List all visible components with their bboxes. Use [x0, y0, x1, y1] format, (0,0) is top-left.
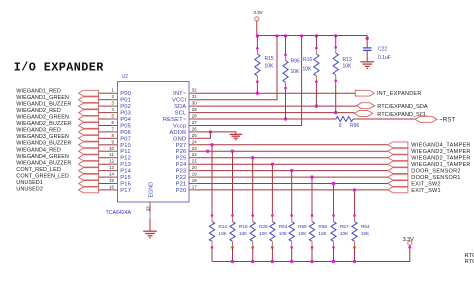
svg-text:32: 32: [192, 88, 197, 93]
svg-text:P15: P15: [120, 175, 131, 181]
svg-text:R96: R96: [350, 123, 359, 129]
off-page connector UNUSED2: [79, 187, 99, 193]
wire R57 to rail: [333, 241, 335, 247]
pin 33 stub: [149, 202, 151, 209]
svg-text:18: 18: [192, 178, 197, 183]
svg-text:WIEGAND4_TAMPER: WIEGAND4_TAMPER: [411, 143, 470, 149]
off-page connector WIEGAND3_RED: [79, 129, 99, 135]
capacitor C22 bottom lead: [366, 50, 368, 61]
off-page connector WIEGAND1_BUZZER: [79, 103, 99, 109]
junction R26/row: [251, 156, 254, 159]
wire Vccp to 3.3V rail: [197, 36, 302, 126]
off-page connector CONT_RED_LED: [79, 168, 99, 174]
svg-text:R18: R18: [239, 224, 248, 230]
svg-text:WIEGAND4_GREEN: WIEGAND4_GREEN: [16, 154, 69, 160]
junction bottom rail: [271, 260, 274, 263]
svg-text:CONT_GREEN_LED: CONT_GREEN_LED: [16, 173, 69, 179]
svg-text:29: 29: [192, 107, 197, 112]
wire R56 to rail: [311, 241, 313, 247]
svg-text:10K: 10K: [218, 231, 227, 237]
resistor R18 body: [230, 222, 235, 242]
wire EXIT_SW1 net: [197, 189, 388, 191]
svg-text:VCCI: VCCI: [172, 98, 187, 104]
pin 18 stub: [189, 183, 197, 185]
pin 13 stub: [111, 170, 118, 172]
off-page connector DOOR_SENSOR2: [388, 168, 408, 174]
wire R18 pull-up drop: [232, 151, 234, 215]
R56 pin ends: [311, 214, 314, 217]
off-page connector WIEGAND2_BUZZER: [79, 123, 99, 129]
wire R57 pull-up drop: [333, 184, 335, 216]
junction R55/row: [290, 169, 293, 172]
junction rail: [334, 34, 337, 37]
svg-text:10K: 10K: [265, 64, 275, 70]
wire RESET~ net: [197, 118, 336, 120]
wire WIEGAND3_BUZZER to pin 9: [98, 144, 111, 146]
junction bottom rail: [353, 260, 356, 263]
wire 3.3V to rail: [256, 21, 258, 36]
svg-text:GND: GND: [173, 136, 186, 142]
wire WIEGAND1_RED to pin 1: [98, 92, 111, 94]
wire UNUSED1 to pin 15: [98, 183, 111, 185]
wire R14 to rail: [211, 241, 213, 247]
svg-text:ADDR: ADDR: [169, 130, 186, 136]
svg-text:9: 9: [111, 139, 114, 144]
R16 pin ends: [315, 47, 318, 50]
svg-text:25: 25: [192, 133, 197, 138]
wire WIEGAND1_GREEN to pin 2: [98, 99, 111, 101]
svg-text:WIEGAND2_GREEN: WIEGAND2_GREEN: [16, 115, 69, 121]
off-page connector WIEGAND1_GREEN: [79, 97, 99, 103]
pin 7 stub: [111, 131, 118, 133]
svg-text:WIEGAND2_BUZZER: WIEGAND2_BUZZER: [16, 121, 71, 127]
R54 pin ends: [271, 214, 274, 217]
off-page connector WIEGAND2_TAMPER: [388, 155, 408, 161]
junction R57/row: [332, 182, 335, 185]
svg-text:P25: P25: [176, 156, 187, 162]
svg-text:INT_EXPANDER: INT_EXPANDER: [377, 91, 422, 97]
R18 pin ends: [231, 214, 234, 217]
stray junction on P26 row: [206, 150, 209, 153]
svg-text:U2: U2: [122, 74, 129, 80]
pin 19 stub: [189, 176, 197, 178]
R64 pin ends: [353, 214, 356, 217]
wire WIEGAND2_RED to pin 4: [98, 112, 111, 114]
svg-text:P27: P27: [176, 143, 187, 149]
svg-text:10K: 10K: [361, 231, 370, 237]
resistor R13 leads: [335, 36, 337, 48]
svg-text:10K: 10K: [279, 231, 288, 237]
svg-text:R64: R64: [361, 224, 370, 230]
svg-text:R15: R15: [265, 56, 274, 62]
off-page connector INT_EXPANDER: [355, 90, 374, 96]
wire R54 to rail: [271, 241, 273, 247]
wire WIEGAND2_TAMPER net: [197, 157, 388, 159]
svg-text:WIEGAND1_RED: WIEGAND1_RED: [16, 88, 61, 94]
junction R18/row: [231, 150, 234, 153]
pin 29 stub: [189, 112, 197, 114]
svg-text:P24: P24: [176, 162, 187, 168]
wire WIEGAND3_GREEN to pin 8: [98, 137, 111, 139]
off-page connector CONT_GREEN_LED: [79, 174, 99, 180]
svg-text:DOOR_SENSOR1: DOOR_SENSOR1: [411, 175, 460, 181]
svg-text:3: 3: [111, 101, 114, 106]
R57 pin ends: [332, 214, 335, 217]
svg-text:P17: P17: [120, 188, 131, 194]
svg-text:7: 7: [111, 126, 114, 131]
svg-text:TCA6424A: TCA6424A: [106, 210, 132, 216]
power 3.3V (bottom): [408, 241, 412, 245]
wire CONT_RED_LED to pin 13: [98, 170, 111, 172]
svg-text:P11: P11: [120, 149, 130, 155]
wire ADDR to ground: [197, 132, 236, 135]
off-page connector WIEGAND3_TAMPER: [388, 148, 408, 154]
ground symbol (C22): [360, 61, 374, 63]
svg-text:P10: P10: [120, 143, 131, 149]
wire SCL net: [197, 112, 354, 114]
svg-text:0: 0: [339, 123, 342, 129]
svg-text:10K: 10K: [298, 231, 307, 237]
resistor R15 body: [255, 54, 260, 76]
svg-text:13: 13: [109, 165, 114, 170]
off-page connector WIEGAND1_RED: [79, 90, 99, 96]
svg-text:28: 28: [192, 114, 197, 119]
svg-text:22: 22: [192, 152, 197, 157]
pin 14 stub: [111, 176, 118, 178]
svg-text:UNUSED1: UNUSED1: [16, 180, 43, 186]
wire WIEGAND1_BUZZER to pin 3: [98, 105, 111, 107]
junction bottom rail: [290, 260, 293, 263]
svg-text:10: 10: [109, 146, 114, 151]
svg-text:23: 23: [192, 146, 197, 151]
wire GND pin up to ADDR net: [197, 132, 211, 138]
pin 15 stub: [111, 183, 118, 185]
pin end dot below 3.3V: [408, 246, 411, 249]
resistor R55 body: [289, 222, 294, 242]
svg-text:WIEGAND2_TAMPER: WIEGAND2_TAMPER: [411, 156, 470, 162]
pin 27 stub: [189, 125, 197, 127]
svg-text:10K: 10K: [239, 231, 248, 237]
resistor R16 body: [314, 54, 319, 76]
svg-text:WIEGAND3_RED: WIEGAND3_RED: [16, 128, 61, 134]
resistor R16 leads: [315, 36, 317, 49]
svg-text:WIEGAND3_TAMPER: WIEGAND3_TAMPER: [411, 149, 470, 155]
R26 pin ends: [251, 214, 254, 217]
svg-text:30: 30: [192, 101, 197, 106]
svg-text:10K: 10K: [303, 67, 313, 73]
svg-text:2: 2: [111, 94, 114, 99]
pin 26 stub: [189, 131, 197, 133]
svg-text:10K: 10K: [343, 63, 353, 69]
wire WIEGAND2_BUZZER to pin 6: [98, 125, 111, 127]
wire WIEGAND4_GREEN to pin 11: [98, 157, 111, 159]
pin 23 stub: [189, 150, 197, 152]
svg-text:R55: R55: [298, 224, 307, 230]
wire R64 to rail: [354, 241, 356, 247]
off-page connector EXIT_SW2: [388, 181, 408, 187]
wire WIEGAND1_TAMPER net: [197, 163, 388, 165]
pin 2 stub: [111, 99, 118, 101]
off-page connector WIEGAND3_BUZZER: [79, 142, 99, 148]
off-page connector RTC/EXPAND_SDA: [356, 103, 375, 109]
svg-text:INT~: INT~: [173, 91, 187, 97]
power 3.3V (top): [255, 17, 259, 21]
svg-text:P23: P23: [176, 169, 187, 175]
off-page connector WIEGAND4_TAMPER: [388, 142, 408, 148]
R13 pin ends: [334, 46, 337, 49]
svg-text:R14: R14: [218, 224, 227, 230]
svg-text:16: 16: [109, 184, 114, 189]
junction rail: [315, 34, 318, 37]
off-page connector ~RST: [415, 116, 437, 122]
resistor R96 body: [336, 117, 353, 122]
svg-text:P21: P21: [176, 182, 187, 188]
wire R56 pull-up drop: [311, 177, 313, 215]
svg-text:WIEGAND1_TAMPER: WIEGAND1_TAMPER: [411, 162, 470, 168]
svg-text:CONT_RED_LED: CONT_RED_LED: [16, 167, 61, 173]
junction rail C22: [366, 37, 369, 40]
svg-text:1: 1: [111, 88, 114, 93]
pin 11 stub: [111, 157, 118, 159]
wire R14 pull-up drop: [211, 145, 213, 216]
off-page connector EXIT_SW1: [388, 187, 408, 193]
svg-text:I/O EXPANDER: I/O EXPANDER: [14, 60, 104, 74]
R55 pin ends: [290, 214, 293, 217]
off-page connector WIEGAND4_RED: [79, 148, 99, 154]
wire bottom 3.3V rail: [212, 245, 410, 261]
svg-text:3.3V: 3.3V: [403, 237, 414, 243]
svg-text:11: 11: [109, 152, 114, 157]
pin 16 stub: [111, 189, 118, 191]
junction ADDR/GND tie: [209, 130, 212, 133]
junction rail: [256, 34, 259, 37]
R14 pin ends: [211, 214, 214, 217]
off-page connector WIEGAND3_GREEN: [79, 135, 99, 141]
svg-text:21: 21: [192, 159, 197, 164]
wire VCCI to 3.3V rail: [197, 36, 277, 100]
svg-text:RTC/EXPAND_SDA: RTC/EXPAND_SDA: [377, 104, 428, 110]
svg-text:R95: R95: [291, 59, 300, 65]
pin 22 stub: [189, 157, 197, 159]
wire EXIT_SW2 net: [197, 183, 388, 185]
junction bottom rail: [310, 260, 313, 263]
junction R54/row: [271, 163, 274, 166]
off-page connector WIEGAND4_BUZZER: [79, 161, 99, 167]
svg-text:P05: P05: [120, 124, 131, 130]
wire WIEGAND3_RED to pin 7: [98, 131, 111, 133]
svg-text:17: 17: [192, 184, 197, 189]
junction R56/row: [310, 175, 313, 178]
svg-text:Vccp: Vccp: [173, 124, 186, 130]
off-page connector WIEGAND2_GREEN: [79, 116, 99, 122]
resistor R14 body: [209, 222, 214, 242]
junction bottom rail: [231, 260, 234, 263]
svg-text:24: 24: [192, 139, 197, 144]
svg-text:8: 8: [111, 133, 114, 138]
pin 24 stub: [189, 144, 197, 146]
svg-text:10K: 10K: [291, 69, 301, 75]
pin 10 stub: [111, 150, 118, 152]
R95 pin ends: [284, 53, 287, 56]
svg-text:P00: P00: [120, 91, 131, 97]
svg-text:4: 4: [111, 107, 114, 112]
svg-text:P02: P02: [120, 104, 131, 110]
svg-text:P16: P16: [120, 182, 131, 188]
wire R26 pull-up drop: [252, 158, 254, 216]
wire R96 to ~RST: [353, 118, 415, 120]
junction R14/row: [210, 143, 213, 146]
pin 31 stub: [189, 99, 197, 101]
svg-text:R57: R57: [340, 224, 349, 230]
wire INT~ net: [197, 92, 355, 94]
junction R95/RESET: [284, 117, 287, 120]
pin 8 stub: [111, 137, 118, 139]
svg-text:10K: 10K: [318, 231, 327, 237]
wire R26 to rail: [252, 241, 254, 247]
pin 6 stub: [111, 125, 118, 127]
svg-text:P07: P07: [120, 136, 131, 142]
svg-text:~RST: ~RST: [439, 117, 455, 123]
svg-text:14: 14: [109, 172, 114, 177]
svg-text:R54: R54: [279, 224, 288, 230]
svg-text:R13: R13: [343, 57, 352, 63]
pin 3 stub: [111, 105, 118, 107]
capacitor C22 plates: [363, 47, 371, 49]
junction R15/INT: [256, 92, 259, 95]
off-page connector DOOR_SENSOR1: [388, 174, 408, 180]
wire 3.3V rail: [257, 35, 367, 37]
svg-text:P03: P03: [120, 111, 131, 117]
svg-text:P26: P26: [176, 149, 187, 155]
svg-text:27: 27: [192, 120, 197, 125]
pin 32 stub: [189, 92, 197, 94]
resistor R15 leads: [256, 36, 258, 49]
pin 9 stub: [111, 144, 118, 146]
svg-text:RESET~: RESET~: [163, 117, 187, 123]
svg-text:DOOR_SENSOR2: DOOR_SENSOR2: [411, 168, 460, 174]
pin 25 stub: [189, 137, 197, 139]
svg-text:12: 12: [109, 159, 114, 164]
svg-text:P06: P06: [120, 130, 131, 136]
svg-text:WIEGAND2_RED: WIEGAND2_RED: [16, 108, 61, 114]
resistor R57 body: [331, 222, 336, 242]
svg-text:WIEGAND1_GREEN: WIEGAND1_GREEN: [16, 95, 69, 101]
pin 30 stub: [189, 105, 197, 107]
resistor R95 leads: [285, 36, 287, 55]
wire R55 to rail: [291, 241, 293, 247]
svg-text:R56: R56: [318, 224, 327, 230]
svg-text:20: 20: [192, 165, 197, 170]
resistor R13 body: [333, 53, 338, 75]
svg-text:WIEGAND1_BUZZER: WIEGAND1_BUZZER: [16, 102, 71, 108]
capacitor C22 top lead: [366, 36, 368, 48]
svg-text:6: 6: [111, 120, 114, 125]
svg-text:19: 19: [192, 172, 197, 177]
svg-text:5: 5: [111, 114, 114, 119]
svg-text:0.1uF: 0.1uF: [378, 55, 391, 61]
wire CONT_GREEN_LED to pin 14: [98, 176, 111, 178]
svg-text:WIEGAND4_BUZZER: WIEGAND4_BUZZER: [16, 160, 71, 166]
svg-text:P04: P04: [120, 117, 131, 123]
junction R64/row: [353, 188, 356, 191]
svg-text:10K: 10K: [259, 231, 268, 237]
svg-text:R16: R16: [303, 57, 312, 63]
svg-text:WIEGAND4_RED: WIEGAND4_RED: [16, 147, 61, 153]
svg-text:SDA: SDA: [174, 104, 186, 110]
junction rail: [300, 34, 303, 37]
svg-text:SCL: SCL: [175, 111, 187, 117]
svg-text:P14: P14: [120, 169, 131, 175]
IC U2 TCA6424A body: [118, 82, 190, 203]
svg-text:R26: R26: [259, 224, 268, 230]
ground symbol (ADDR/GND): [230, 133, 242, 135]
pin 17 stub: [189, 189, 197, 191]
off-page connector WIEGAND1_TAMPER: [388, 161, 408, 167]
off-page connector WIEGAND2_RED: [79, 110, 99, 116]
svg-text:RTC: RTC: [465, 259, 474, 265]
svg-text:P01: P01: [120, 98, 131, 104]
off-page connector RTC/EXPAND_SCL: [354, 110, 373, 116]
wire UNUSED2 to pin 16: [98, 189, 111, 191]
pin 12 stub: [111, 163, 118, 165]
svg-text:31: 31: [192, 94, 197, 99]
svg-text:EXIT_SW2: EXIT_SW2: [411, 181, 441, 187]
pin 4 stub: [111, 112, 118, 114]
junction bottom rail: [332, 260, 335, 263]
svg-text:EGND: EGND: [148, 182, 154, 198]
wire DOOR_SENSOR1 net: [197, 176, 388, 178]
junction bottom rail: [251, 260, 254, 263]
svg-text:C22: C22: [378, 47, 387, 53]
wire WIEGAND2_GREEN to pin 5: [98, 118, 111, 120]
wire DOOR_SENSOR2 net: [197, 170, 388, 172]
svg-text:10K: 10K: [340, 231, 349, 237]
svg-text:UNUSED2: UNUSED2: [16, 187, 43, 193]
wire WIEGAND4_BUZZER to pin 12: [98, 163, 111, 165]
wire R64 pull-up drop: [354, 190, 356, 216]
wire R18 to rail: [232, 241, 234, 247]
svg-text:P22: P22: [176, 175, 187, 181]
wire WIEGAND3_TAMPER net: [197, 150, 388, 152]
wire pin33 to ground: [149, 209, 151, 232]
pin 1 stub: [111, 92, 118, 94]
off-page connector WIEGAND4_GREEN: [79, 155, 99, 161]
svg-text:P12: P12: [120, 156, 131, 162]
svg-text:15: 15: [109, 178, 114, 183]
ground symbol (chip EGND): [143, 230, 157, 232]
svg-text:EXIT_SW1: EXIT_SW1: [411, 188, 441, 194]
pin 5 stub: [111, 118, 118, 120]
wire SDA net: [197, 105, 356, 107]
junction R16/SDA: [315, 104, 318, 107]
resistor R64 body: [352, 222, 357, 242]
resistor R56 body: [309, 222, 314, 242]
wire WIEGAND4_RED to pin 10: [98, 150, 111, 152]
junction rail: [275, 34, 278, 37]
resistor R54 body: [270, 222, 275, 242]
resistor R26 body: [250, 222, 255, 242]
resistor R95 body: [283, 60, 288, 82]
svg-text:P20: P20: [176, 188, 187, 194]
wire WIEGAND4_TAMPER net: [197, 144, 388, 146]
off-page connector UNUSED1: [79, 181, 99, 187]
R15 pin ends: [256, 47, 259, 50]
wire R55 pull-up drop: [291, 171, 293, 216]
svg-text:WIEGAND3_GREEN: WIEGAND3_GREEN: [16, 134, 69, 140]
pin 20 stub: [189, 170, 197, 172]
junction R13/SCL: [334, 111, 337, 114]
wire R54 pull-up drop: [271, 164, 273, 215]
